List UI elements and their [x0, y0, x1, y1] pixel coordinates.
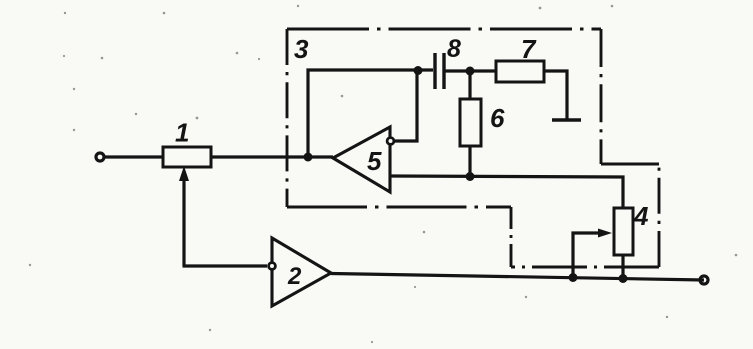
svg-text:1: 1 — [175, 118, 189, 148]
arrowhead of R4 wiper — [598, 229, 612, 238]
wire: R4 wiper arm — [573, 233, 601, 277]
wire: R6 down to node D — [468, 146, 471, 177]
wire: U5 output line to R4 top — [390, 176, 623, 208]
node A junction — [304, 153, 313, 162]
resistor R6 — [460, 99, 481, 146]
wire: control line to U2 input — [183, 264, 268, 267]
junction: wiper node on output line — [569, 273, 578, 282]
svg-text:3: 3 — [294, 34, 309, 64]
wire: control arm of R1 (vertical) — [182, 174, 185, 266]
svg-text:7: 7 — [521, 34, 537, 64]
svg-text:6: 6 — [490, 103, 505, 133]
op-amp U5 — [333, 127, 390, 192]
node C junction — [466, 67, 475, 76]
terminal: input — [96, 153, 104, 161]
node D junction — [466, 172, 475, 181]
arrowhead into R1 — [179, 166, 189, 181]
terminal: output — [700, 276, 708, 284]
potentiometer R4 — [614, 208, 633, 255]
wire: bottom output line — [331, 274, 704, 281]
wire: R4 bottom to output line — [621, 255, 624, 279]
wire: R1 to node A and U5 input — [211, 155, 333, 158]
node B junction — [414, 66, 423, 75]
capacitor C8 — [433, 53, 436, 89]
wire: input lead to R1 — [104, 155, 164, 158]
wire: U5 bubble to node B — [395, 71, 417, 141]
wire: node C down to R6 — [468, 71, 471, 100]
op-amp U2 — [272, 238, 331, 306]
wire: C8 to node C and R7 — [445, 69, 497, 72]
wire: feedback node A up to C8 — [308, 70, 433, 157]
inversion bubble U5 — [387, 138, 394, 145]
svg-text:5: 5 — [367, 146, 382, 176]
junction: R4 bottom node — [619, 274, 628, 283]
svg-text:2: 2 — [287, 263, 302, 290]
svg-text:8: 8 — [447, 35, 461, 63]
boundary box 3 (dash-dot) — [287, 29, 659, 267]
ground — [552, 118, 581, 122]
resistor R1 — [163, 147, 211, 167]
inversion bubble U2 — [269, 263, 276, 270]
resistor R7 — [496, 61, 544, 82]
svg-text:4: 4 — [633, 201, 649, 231]
wire: R7 to ground — [544, 71, 567, 119]
